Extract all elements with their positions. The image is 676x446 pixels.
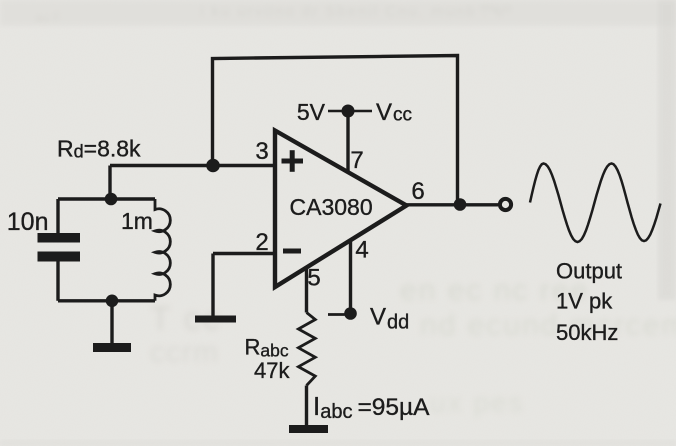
svg-text:i ku urvilno dr Sbenil Cnu. m: i ku urvilno dr Sbenil Cnu. munb . u — [200, 3, 505, 20]
svg-text:4: 4 — [355, 237, 368, 264]
svg-text:1m: 1m — [121, 208, 153, 234]
svg-text:5: 5 — [307, 265, 320, 292]
svg-text:10n: 10n — [7, 208, 49, 236]
svg-text:2: 2 — [255, 229, 268, 256]
svg-text:mu u: mu u — [480, 0, 511, 15]
svg-text:CA3080: CA3080 — [290, 194, 373, 220]
svg-text:50kHz: 50kHz — [556, 320, 618, 345]
svg-text:Output: Output — [556, 259, 622, 284]
svg-text:5V: 5V — [297, 99, 326, 125]
svg-text:ccrm: ccrm — [150, 336, 219, 369]
svg-text:3: 3 — [255, 138, 268, 165]
svg-text:47k: 47k — [254, 358, 290, 383]
svg-text:au F: au F — [35, 10, 61, 25]
svg-text:ux pes: ux pes — [430, 387, 525, 418]
svg-text:nd ecund mcrcem: nd ecund mcrcem — [420, 309, 676, 342]
svg-text:7: 7 — [350, 147, 363, 174]
svg-text:1V pk: 1V pk — [556, 289, 613, 314]
svg-text:Rd=8.8k: Rd=8.8k — [57, 136, 141, 162]
svg-text:6: 6 — [411, 178, 424, 205]
